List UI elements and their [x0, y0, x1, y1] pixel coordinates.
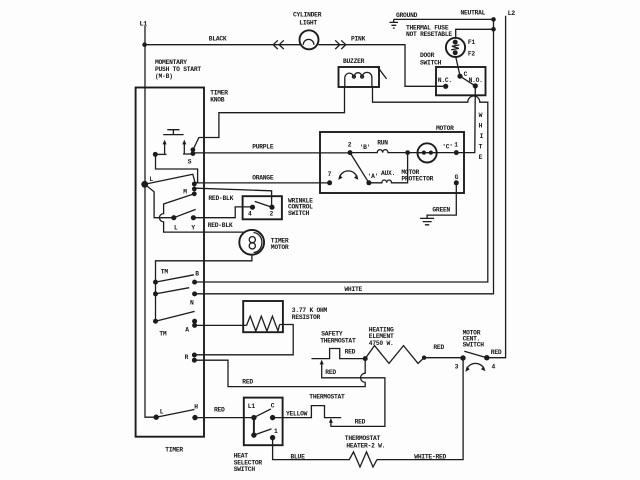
- svg-text:2: 2: [348, 141, 352, 148]
- wire BLACK: [145, 44, 301, 46]
- timer blade TM to A: [156, 311, 195, 321]
- svg-text:RED: RED: [355, 418, 366, 425]
- momentary arrows: [164, 144, 166, 155]
- motor 7-A arc indicator: [340, 171, 357, 177]
- timer motor: [239, 230, 264, 255]
- safety thermostat arm arrow + RED link wire: [320, 360, 324, 365]
- svg-text:W: W: [479, 112, 483, 119]
- svg-text:A: A: [185, 326, 189, 333]
- svg-text:R: R: [185, 354, 189, 361]
- svg-text:3: 3: [455, 363, 459, 370]
- disconnect chevrons right of cylinder light: [335, 40, 346, 49]
- svg-text:'C': 'C': [442, 143, 453, 150]
- svg-text:NEUTRAL: NEUTRAL: [461, 10, 486, 17]
- svg-text:RED-BLK: RED-BLK: [208, 195, 233, 202]
- wire timer motor bottom to TM chain: [156, 255, 252, 322]
- resistor box: [243, 301, 283, 332]
- svg-text:RESISTOR: RESISTOR: [292, 314, 321, 321]
- svg-text:SWITCH: SWITCH: [420, 59, 442, 66]
- svg-text:RED: RED: [345, 349, 356, 356]
- wire door switch N.O. down to motor 1: [456, 86, 475, 153]
- timer blade lower L to Y: [174, 209, 196, 217]
- svg-text:2: 2: [270, 210, 274, 217]
- wire YELLOW + thermostat: [273, 406, 342, 418]
- node L1/black junction: [142, 42, 147, 47]
- svg-text:E: E: [479, 154, 483, 161]
- svg-text:RED: RED: [491, 349, 502, 356]
- svg-text:HEATER-2 W.: HEATER-2 W.: [346, 442, 385, 449]
- svg-text:RED: RED: [214, 407, 225, 414]
- motor blade 2 to A: [350, 153, 369, 183]
- svg-text:4: 4: [248, 210, 252, 217]
- buzzer coil: [345, 72, 372, 87]
- node TM contacts: [153, 280, 158, 285]
- timer box: [136, 88, 204, 437]
- svg-text:CYLINDER: CYLINDER: [293, 11, 322, 18]
- svg-text:GROUND: GROUND: [396, 12, 418, 19]
- wire PURPLE to motor 2: [194, 152, 351, 154]
- wire RED R to heating element junction (with hop): [197, 359, 366, 387]
- svg-text:G: G: [455, 174, 459, 181]
- timer blade L to M: [145, 174, 196, 184]
- node run/aux junction: [405, 150, 410, 155]
- door switch contacts: [457, 74, 462, 79]
- svg-text:YELLOW: YELLOW: [286, 410, 308, 417]
- svg-text:4: 4: [492, 363, 496, 370]
- svg-text:4750 W.: 4750 W.: [369, 340, 394, 347]
- node N terminal: [192, 291, 197, 296]
- svg-text:SWITCH: SWITCH: [463, 341, 485, 348]
- wire resistor to R: [197, 325, 294, 355]
- svg-text:NOT RESETABLE: NOT RESETABLE: [406, 31, 452, 38]
- svg-text:PURPLE: PURPLE: [252, 144, 274, 151]
- motor aux winding: [366, 180, 371, 185]
- node timer L/H bottom contacts: [154, 415, 159, 420]
- buzzer blade: [377, 67, 386, 79]
- svg-text:L1: L1: [140, 21, 148, 28]
- wire ORANGE to motor 7: [196, 182, 330, 184]
- svg-text:ORANGE: ORANGE: [252, 174, 274, 181]
- wire L2 vertical down to motor cent switch 4: [487, 16, 506, 358]
- svg-text:N.C.: N.C.: [438, 77, 452, 84]
- motor box: [320, 132, 464, 193]
- wire heating element to motor cent switch 3: [424, 357, 461, 359]
- svg-text:RED: RED: [433, 344, 444, 351]
- svg-text:(M-B): (M-B): [155, 73, 173, 80]
- node L timer feed: [141, 181, 148, 188]
- svg-text:TM: TM: [161, 268, 169, 275]
- svg-text:BLACK: BLACK: [209, 36, 227, 43]
- svg-text:1: 1: [274, 428, 278, 435]
- svg-text:L: L: [174, 225, 178, 232]
- svg-text:PINK: PINK: [351, 35, 366, 42]
- motor terminal 2: [348, 150, 353, 155]
- wire RED timer H to heat selector L1: [197, 417, 254, 419]
- svg-text:WHITE-RED: WHITE-RED: [414, 453, 446, 460]
- wire buzzer left to momentary S contact: [193, 87, 344, 150]
- node lower L contact: [171, 215, 176, 220]
- svg-text:H: H: [479, 123, 483, 130]
- svg-text:I: I: [480, 133, 484, 140]
- svg-text:F2: F2: [468, 51, 476, 58]
- motor terminal 1: [454, 150, 459, 155]
- wire M bottom to timer motor (with hop): [159, 194, 244, 232]
- wire neutral vertical down to timer N: [195, 19, 494, 293]
- ground symbol green: [420, 218, 434, 224]
- svg-text:SWITCH: SWITCH: [288, 210, 310, 217]
- wire GREEN to ground: [427, 183, 456, 218]
- svg-text:Y: Y: [191, 225, 195, 232]
- svg-text:L: L: [160, 409, 164, 416]
- wire buzzer right to timer B (enclosure loop): [195, 87, 488, 282]
- wire motor cent 3 down / bottom WHITE-RED loop: [377, 358, 463, 460]
- node S terminals: [191, 147, 196, 152]
- node R terminals: [192, 353, 197, 358]
- svg-text:B: B: [195, 270, 199, 277]
- resistor element: [247, 316, 280, 331]
- svg-text:RED: RED: [325, 369, 336, 376]
- svg-text:'B': 'B': [360, 144, 371, 151]
- wire neutral branch to thermal fuse: [456, 29, 494, 38]
- svg-text:F1: F1: [468, 39, 476, 46]
- wire fuse F2 to door switch C: [456, 57, 460, 76]
- node A terminals: [192, 319, 197, 324]
- wire PINK to door switch N.C.: [319, 45, 444, 87]
- svg-text:WHITE: WHITE: [344, 286, 362, 293]
- svg-text:M: M: [183, 188, 187, 195]
- svg-text:'A': 'A': [368, 173, 379, 180]
- disconnect chevrons left of cylinder light: [273, 40, 284, 49]
- svg-text:MOTOR: MOTOR: [271, 244, 289, 251]
- svg-text:THERMOSTAT: THERMOSTAT: [309, 393, 345, 400]
- momentary contact stubs: [153, 152, 158, 157]
- svg-text:SWITCH: SWITCH: [234, 466, 256, 473]
- svg-text:T: T: [479, 144, 483, 151]
- wire upper contact to M chain: [156, 154, 198, 184]
- timer blade TM to N: [156, 288, 190, 294]
- svg-text:THERMOSTAT: THERMOSTAT: [345, 435, 381, 442]
- svg-text:S: S: [188, 159, 192, 166]
- svg-text:RUN: RUN: [377, 140, 388, 147]
- svg-text:DOOR: DOOR: [420, 52, 435, 59]
- svg-text:RED-BLK: RED-BLK: [208, 222, 233, 229]
- svg-text:GREEN: GREEN: [432, 206, 450, 213]
- svg-text:BLUE: BLUE: [291, 453, 306, 460]
- heat selector switch box: [244, 398, 283, 446]
- svg-text:RED: RED: [242, 378, 253, 385]
- cylinder light lamp: [300, 30, 319, 49]
- wire RED-BLK Y to wrinkle control 4: [193, 207, 252, 218]
- svg-text:7: 7: [328, 171, 332, 178]
- wire RED-BLK M to wrinkle control 2: [196, 188, 272, 207]
- svg-text:TIMER: TIMER: [165, 447, 183, 454]
- node M terminals: [192, 182, 197, 187]
- motor terminal G: [454, 180, 459, 185]
- wire A to resistor: [195, 324, 247, 326]
- node B terminal: [192, 280, 197, 285]
- wrinkle contacts: [250, 205, 255, 210]
- svg-text:L2: L2: [508, 10, 516, 17]
- svg-text:H: H: [194, 403, 198, 410]
- wire L1 vertical feed into timer: [145, 26, 156, 417]
- svg-text:C: C: [271, 403, 275, 410]
- svg-text:SAFETY: SAFETY: [321, 331, 343, 338]
- ground symbol top: [390, 19, 399, 28]
- svg-text:N: N: [190, 299, 194, 306]
- svg-text:THERMOSTAT: THERMOSTAT: [320, 338, 356, 345]
- svg-text:C: C: [464, 71, 468, 78]
- motor terminal 7: [327, 180, 332, 185]
- svg-text:AUX.: AUX.: [381, 170, 395, 177]
- wrinkle control switch box: [243, 196, 282, 219]
- svg-text:MOTOR: MOTOR: [436, 125, 454, 132]
- momentary push-to-start actuator: [163, 130, 183, 135]
- svg-text:BUZZER: BUZZER: [343, 58, 365, 65]
- wire L down to lower contact: [145, 184, 174, 217]
- svg-text:LIGHT: LIGHT: [299, 20, 317, 27]
- svg-text:L1: L1: [248, 403, 256, 410]
- wire NEUTRAL bus: [394, 18, 494, 20]
- svg-text:TIMER: TIMER: [210, 89, 228, 96]
- door switch box: [436, 67, 486, 95]
- svg-text:1: 1: [454, 141, 458, 148]
- motor protector: [408, 152, 454, 154]
- svg-text:KNOB: KNOB: [210, 96, 225, 103]
- svg-text:TM: TM: [159, 331, 167, 338]
- node Y contact: [191, 215, 196, 220]
- timer blade TM to B: [156, 275, 194, 282]
- svg-text:PROTECTOR: PROTECTOR: [401, 175, 433, 182]
